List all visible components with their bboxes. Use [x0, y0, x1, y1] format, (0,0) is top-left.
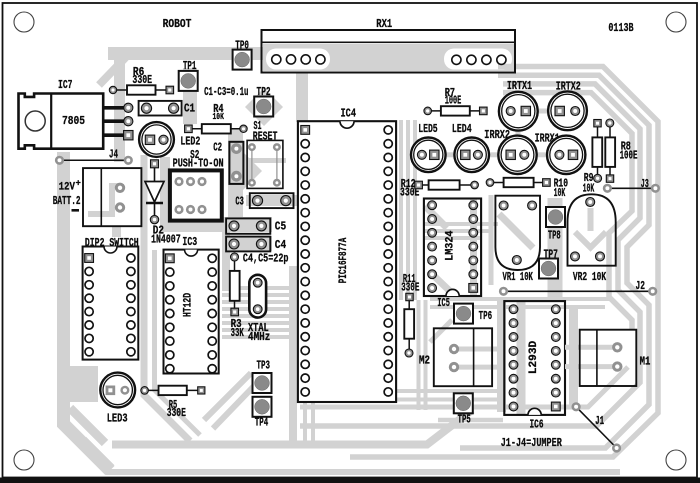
- battery terminal block: [83, 168, 141, 226]
- svg-text:IC6: IC6: [530, 418, 544, 432]
- trimpot VR1: [495, 196, 540, 270]
- motor driver IC6 body: [504, 301, 565, 415]
- mounting hole bottom-left: [14, 450, 34, 470]
- capacitor C3: [250, 193, 294, 208]
- R4 right pad: [240, 125, 247, 132]
- trimpot VR2: [568, 194, 616, 265]
- copper ring 4 right side: [503, 93, 632, 330]
- J1 bottom pad: [612, 443, 621, 452]
- svg-text:330E: 330E: [167, 406, 186, 420]
- svg-text:+: +: [76, 179, 81, 189]
- copper trace under C4: [222, 236, 272, 251]
- switch S2: [170, 170, 222, 220]
- motor connector M1: [580, 330, 637, 386]
- svg-text:LM324: LM324: [445, 230, 457, 261]
- copper bundle HT12D to IC4: [222, 286, 300, 290]
- R8 bottom pad: [606, 175, 613, 182]
- IC7 pin 3 lead: [103, 133, 125, 137]
- svg-text:BATT.2: BATT.2: [53, 194, 81, 208]
- copper traces inside M2: [454, 347, 500, 352]
- crystal XTAL: [249, 275, 266, 318]
- RF receiver module RX1: [262, 30, 516, 73]
- copper stubs below IC4: [303, 402, 307, 444]
- copper trace lower right inner: [300, 367, 628, 407]
- copper pour behind LED3: [64, 366, 98, 402]
- svg-text:C4: C4: [275, 238, 286, 252]
- copper bottom band main: [112, 410, 472, 445]
- svg-text:J4: J4: [109, 148, 118, 162]
- svg-text:LED2: LED2: [180, 134, 200, 148]
- svg-text:7805: 7805: [62, 114, 85, 128]
- copper trace left of S2: [160, 157, 170, 232]
- svg-text:VR2 10K: VR2 10K: [573, 270, 607, 284]
- IC6 left pins: [509, 305, 518, 314]
- resistor R7: [428, 110, 484, 112]
- copper trace diagonal to IC7: [99, 57, 126, 85]
- svg-text:C3: C3: [235, 195, 244, 209]
- resistor R3: [234, 257, 236, 311]
- svg-text:M2: M2: [419, 354, 430, 368]
- svg-text:TP3: TP3: [257, 359, 271, 373]
- R8 top pad: [606, 119, 614, 127]
- jumper J4 wire: [60, 159, 129, 161]
- IR transmitter IRTX1: [499, 92, 538, 131]
- svg-text:PUSH-TO-ON: PUSH-TO-ON: [173, 157, 224, 171]
- mounting hole bottom-right: [666, 450, 686, 470]
- copper trace inside VR1: [499, 214, 533, 248]
- test point TP2: [254, 97, 273, 117]
- R5 left pad: [141, 387, 149, 395]
- svg-text:100E: 100E: [620, 148, 638, 162]
- R7 left pad: [424, 107, 432, 115]
- capacitor C1: [139, 101, 182, 116]
- copper traces inside VR2: [588, 208, 594, 231]
- resistor R6: [113, 89, 168, 91]
- copper trace vertical right-of-DIP2 b: [155, 250, 201, 435]
- R3 bottom pad: [231, 308, 239, 316]
- DIP2 right pins: [127, 254, 135, 262]
- copper link IRRX2-IRRX1: [535, 152, 548, 157]
- svg-text:J1: J1: [595, 414, 604, 428]
- copper band at TP8: [548, 198, 563, 300]
- op-amp IC5 LM324 body: [424, 199, 481, 297]
- copper trace below S2: [160, 222, 230, 232]
- resistor R10: [490, 182, 546, 184]
- microcontroller IC4 body: [298, 121, 396, 402]
- R12 right pad: [471, 181, 479, 189]
- copper trace below RX1 left: [296, 72, 308, 122]
- svg-text:L293D: L293D: [528, 341, 540, 375]
- svg-text:M1: M1: [640, 355, 651, 369]
- copper traces inside LM324: [425, 206, 447, 228]
- svg-text:LED5: LED5: [418, 122, 438, 136]
- IC4 right pins: [384, 126, 392, 134]
- copper wedge right of C2: [243, 152, 262, 190]
- regulator IC7 7805 body: [19, 94, 104, 149]
- J4 left pad: [55, 156, 64, 165]
- IC6 right pins: [551, 305, 560, 314]
- svg-text:C2: C2: [213, 141, 222, 155]
- copper pour band under RX1: [263, 44, 514, 72]
- test point TP7: [539, 259, 558, 279]
- svg-text:TP6: TP6: [479, 309, 493, 323]
- IR transmitter IRTX2: [548, 91, 587, 130]
- resistor R5: [145, 389, 202, 391]
- DIP2 pin1 square pad: [85, 254, 94, 263]
- svg-text:4MHz: 4MHz: [248, 330, 270, 344]
- svg-text:RX1: RX1: [376, 17, 392, 31]
- jumper J1 wire: [576, 407, 617, 448]
- IC7 pin 2 lead: [103, 119, 125, 123]
- resistor R4: [188, 128, 243, 130]
- svg-text:0113B: 0113B: [608, 21, 634, 35]
- jumper J3 wire: [607, 187, 655, 189]
- copper band between IC6 and M1: [569, 308, 578, 408]
- copper ring 1 right side: [350, 67, 658, 458]
- svg-text:C5: C5: [275, 220, 286, 234]
- svg-text:IC3: IC3: [182, 235, 197, 249]
- test point TP8: [546, 207, 565, 227]
- test point TP3: [253, 373, 272, 393]
- copper trace joining C4 C5: [222, 217, 230, 291]
- R10 right pad: [543, 179, 551, 187]
- resistor R12: [419, 184, 475, 186]
- IC4 left pins: [301, 140, 309, 148]
- IC6 pin square pad: [551, 402, 560, 411]
- R7 right pad: [480, 107, 488, 115]
- test point TP0: [233, 50, 252, 70]
- copper traces inside M1: [565, 345, 617, 350]
- R5 right pad: [198, 387, 205, 394]
- switch S1: [247, 140, 283, 188]
- IC7 pin 1 lead: [103, 106, 125, 110]
- mounting hole top-right: [666, 12, 686, 32]
- test point TP6: [454, 304, 473, 324]
- copper diagonals right of R5: [204, 373, 251, 420]
- LED3: [100, 373, 135, 408]
- copper trace vertical left upper: [114, 53, 125, 162]
- J2 right pad: [648, 287, 657, 296]
- svg-text:HT12D: HT12D: [183, 293, 195, 317]
- copper trace left of VR1: [489, 195, 494, 285]
- svg-text:33K: 33K: [231, 326, 245, 340]
- R6 left pad: [109, 86, 116, 93]
- IC7 pin 3 pad: [124, 131, 133, 140]
- copper trace left of IC6: [438, 418, 503, 423]
- svg-text:LED3: LED3: [107, 412, 128, 426]
- copper trace inside IC6: [517, 302, 526, 414]
- copper trace battery feed: [88, 186, 122, 214]
- svg-text:PIC16F877A: PIC16F877A: [338, 238, 350, 284]
- jumper J2 wire: [504, 290, 653, 292]
- copper trace band at C2: [228, 128, 243, 232]
- copper ring 2 right side: [460, 75, 649, 448]
- svg-text:C4,C5=22p: C4,C5=22p: [243, 252, 289, 266]
- copper link IRTX1-IRRX2: [516, 129, 521, 137]
- J2 left pad: [499, 287, 508, 296]
- resistor R9: [597, 123, 599, 178]
- copper trace diagonal parallel bottom-left: [84, 439, 112, 467]
- DIP switch IC2 body: [83, 247, 139, 360]
- IC4 pin1 square pad: [301, 126, 310, 135]
- HT12D left pins: [166, 268, 174, 276]
- R3 top pad: [231, 253, 239, 261]
- LED5: [411, 138, 446, 173]
- IC7 pin 2 pad: [124, 117, 133, 126]
- diode D2: [154, 167, 156, 219]
- LM324 left pins: [428, 201, 437, 210]
- DIP2 left pins: [85, 267, 93, 275]
- copper bundle below J2: [430, 297, 612, 301]
- svg-text:IC5: IC5: [437, 296, 450, 310]
- decoder IC3 HT12D body: [164, 250, 219, 374]
- copper trace vertical far-left: [64, 152, 111, 471]
- copper band left of IC4: [289, 266, 297, 444]
- svg-text:TP8: TP8: [548, 229, 561, 243]
- copper trace vertical right-of-DIP2 a: [144, 155, 190, 441]
- copper link LED5-LED4: [444, 152, 456, 157]
- LM324 pin square pad: [469, 284, 478, 293]
- R11 bottom pad: [405, 349, 413, 357]
- J3 left pad: [603, 184, 612, 193]
- R9 bottom pad: [594, 174, 602, 182]
- IR receiver IRRX2: [498, 136, 536, 174]
- J1 top pad: [572, 402, 581, 411]
- HT12D right pins: [208, 254, 216, 262]
- battery minus sign: [72, 209, 80, 212]
- copper trace through S1: [244, 158, 286, 163]
- svg-text:10K: 10K: [554, 186, 566, 200]
- J4 right pad: [124, 156, 133, 165]
- copper bundle below M2: [330, 389, 497, 393]
- D2 top pad: [151, 160, 159, 168]
- R6 right pad: [166, 86, 174, 94]
- svg-text:J1-J4=JUMPER: J1-J4=JUMPER: [501, 436, 563, 450]
- LED4: [454, 138, 489, 173]
- resistor R11: [408, 299, 410, 353]
- copper diagonal near TP6: [430, 320, 452, 342]
- D2 bottom pad: [150, 215, 158, 223]
- svg-text:LED4: LED4: [452, 122, 472, 136]
- R11 top pad: [406, 293, 413, 300]
- svg-text:IC4: IC4: [341, 107, 357, 121]
- copper bottom band near border: [106, 469, 620, 475]
- copper link LED4-IRRX2: [488, 152, 500, 157]
- R12 left pad: [415, 181, 423, 189]
- LED2: [139, 122, 174, 157]
- capacitor C2: [229, 142, 243, 184]
- motor connector M2: [434, 328, 492, 386]
- LM324 right pins: [469, 201, 478, 210]
- J3 right pad: [651, 184, 660, 193]
- copper bundle below R12: [424, 222, 498, 226]
- copper trace battery to DIP2: [112, 226, 121, 237]
- resistor R8: [609, 123, 611, 179]
- mounting hole top-left: [14, 12, 34, 32]
- R4 left pad: [185, 125, 193, 133]
- svg-text:IC7: IC7: [58, 78, 73, 92]
- copper trace band top-left: [108, 47, 265, 60]
- copper vertical bundle right of IC4 lower: [417, 300, 421, 410]
- R10 left pad: [486, 179, 494, 187]
- svg-text:TP4: TP4: [255, 416, 268, 430]
- capacitor C4: [226, 237, 270, 252]
- svg-text:12V: 12V: [59, 182, 76, 194]
- test point TP5: [454, 393, 473, 413]
- svg-text:C1: C1: [184, 101, 195, 115]
- copper trace behind TP1: [183, 68, 197, 124]
- copper trace under C5: [222, 217, 272, 232]
- copper pour diamond at TP2: [245, 88, 283, 126]
- capacitor C5: [226, 218, 270, 233]
- copper trace under C3: [246, 195, 300, 206]
- svg-text:10K: 10K: [213, 111, 225, 122]
- svg-text:ROBOT: ROBOT: [163, 17, 192, 31]
- svg-text:C1-C3=0.1u: C1-C3=0.1u: [204, 85, 248, 99]
- IR receiver IRRX1: [547, 136, 585, 174]
- copper band left of IC6: [497, 300, 506, 412]
- svg-text:TP5: TP5: [458, 412, 471, 426]
- R9 top pad: [594, 120, 601, 127]
- svg-text:1N4007: 1N4007: [151, 233, 181, 247]
- svg-text:RESET: RESET: [253, 129, 278, 143]
- copper link IRTX1-IRTX2: [536, 109, 549, 114]
- HT12D pin1 square pad: [165, 254, 174, 263]
- bottom border bar: [0, 478, 700, 483]
- svg-text:VR1 10K: VR1 10K: [503, 270, 534, 284]
- test point TP1: [179, 71, 198, 91]
- copper vertical bundle right of IC4: [399, 120, 403, 300]
- copper ring 3 right side: [300, 84, 640, 426]
- IC7 pin 1 pad: [124, 103, 133, 112]
- svg-text:330E: 330E: [401, 281, 419, 295]
- test point TP4: [253, 397, 272, 417]
